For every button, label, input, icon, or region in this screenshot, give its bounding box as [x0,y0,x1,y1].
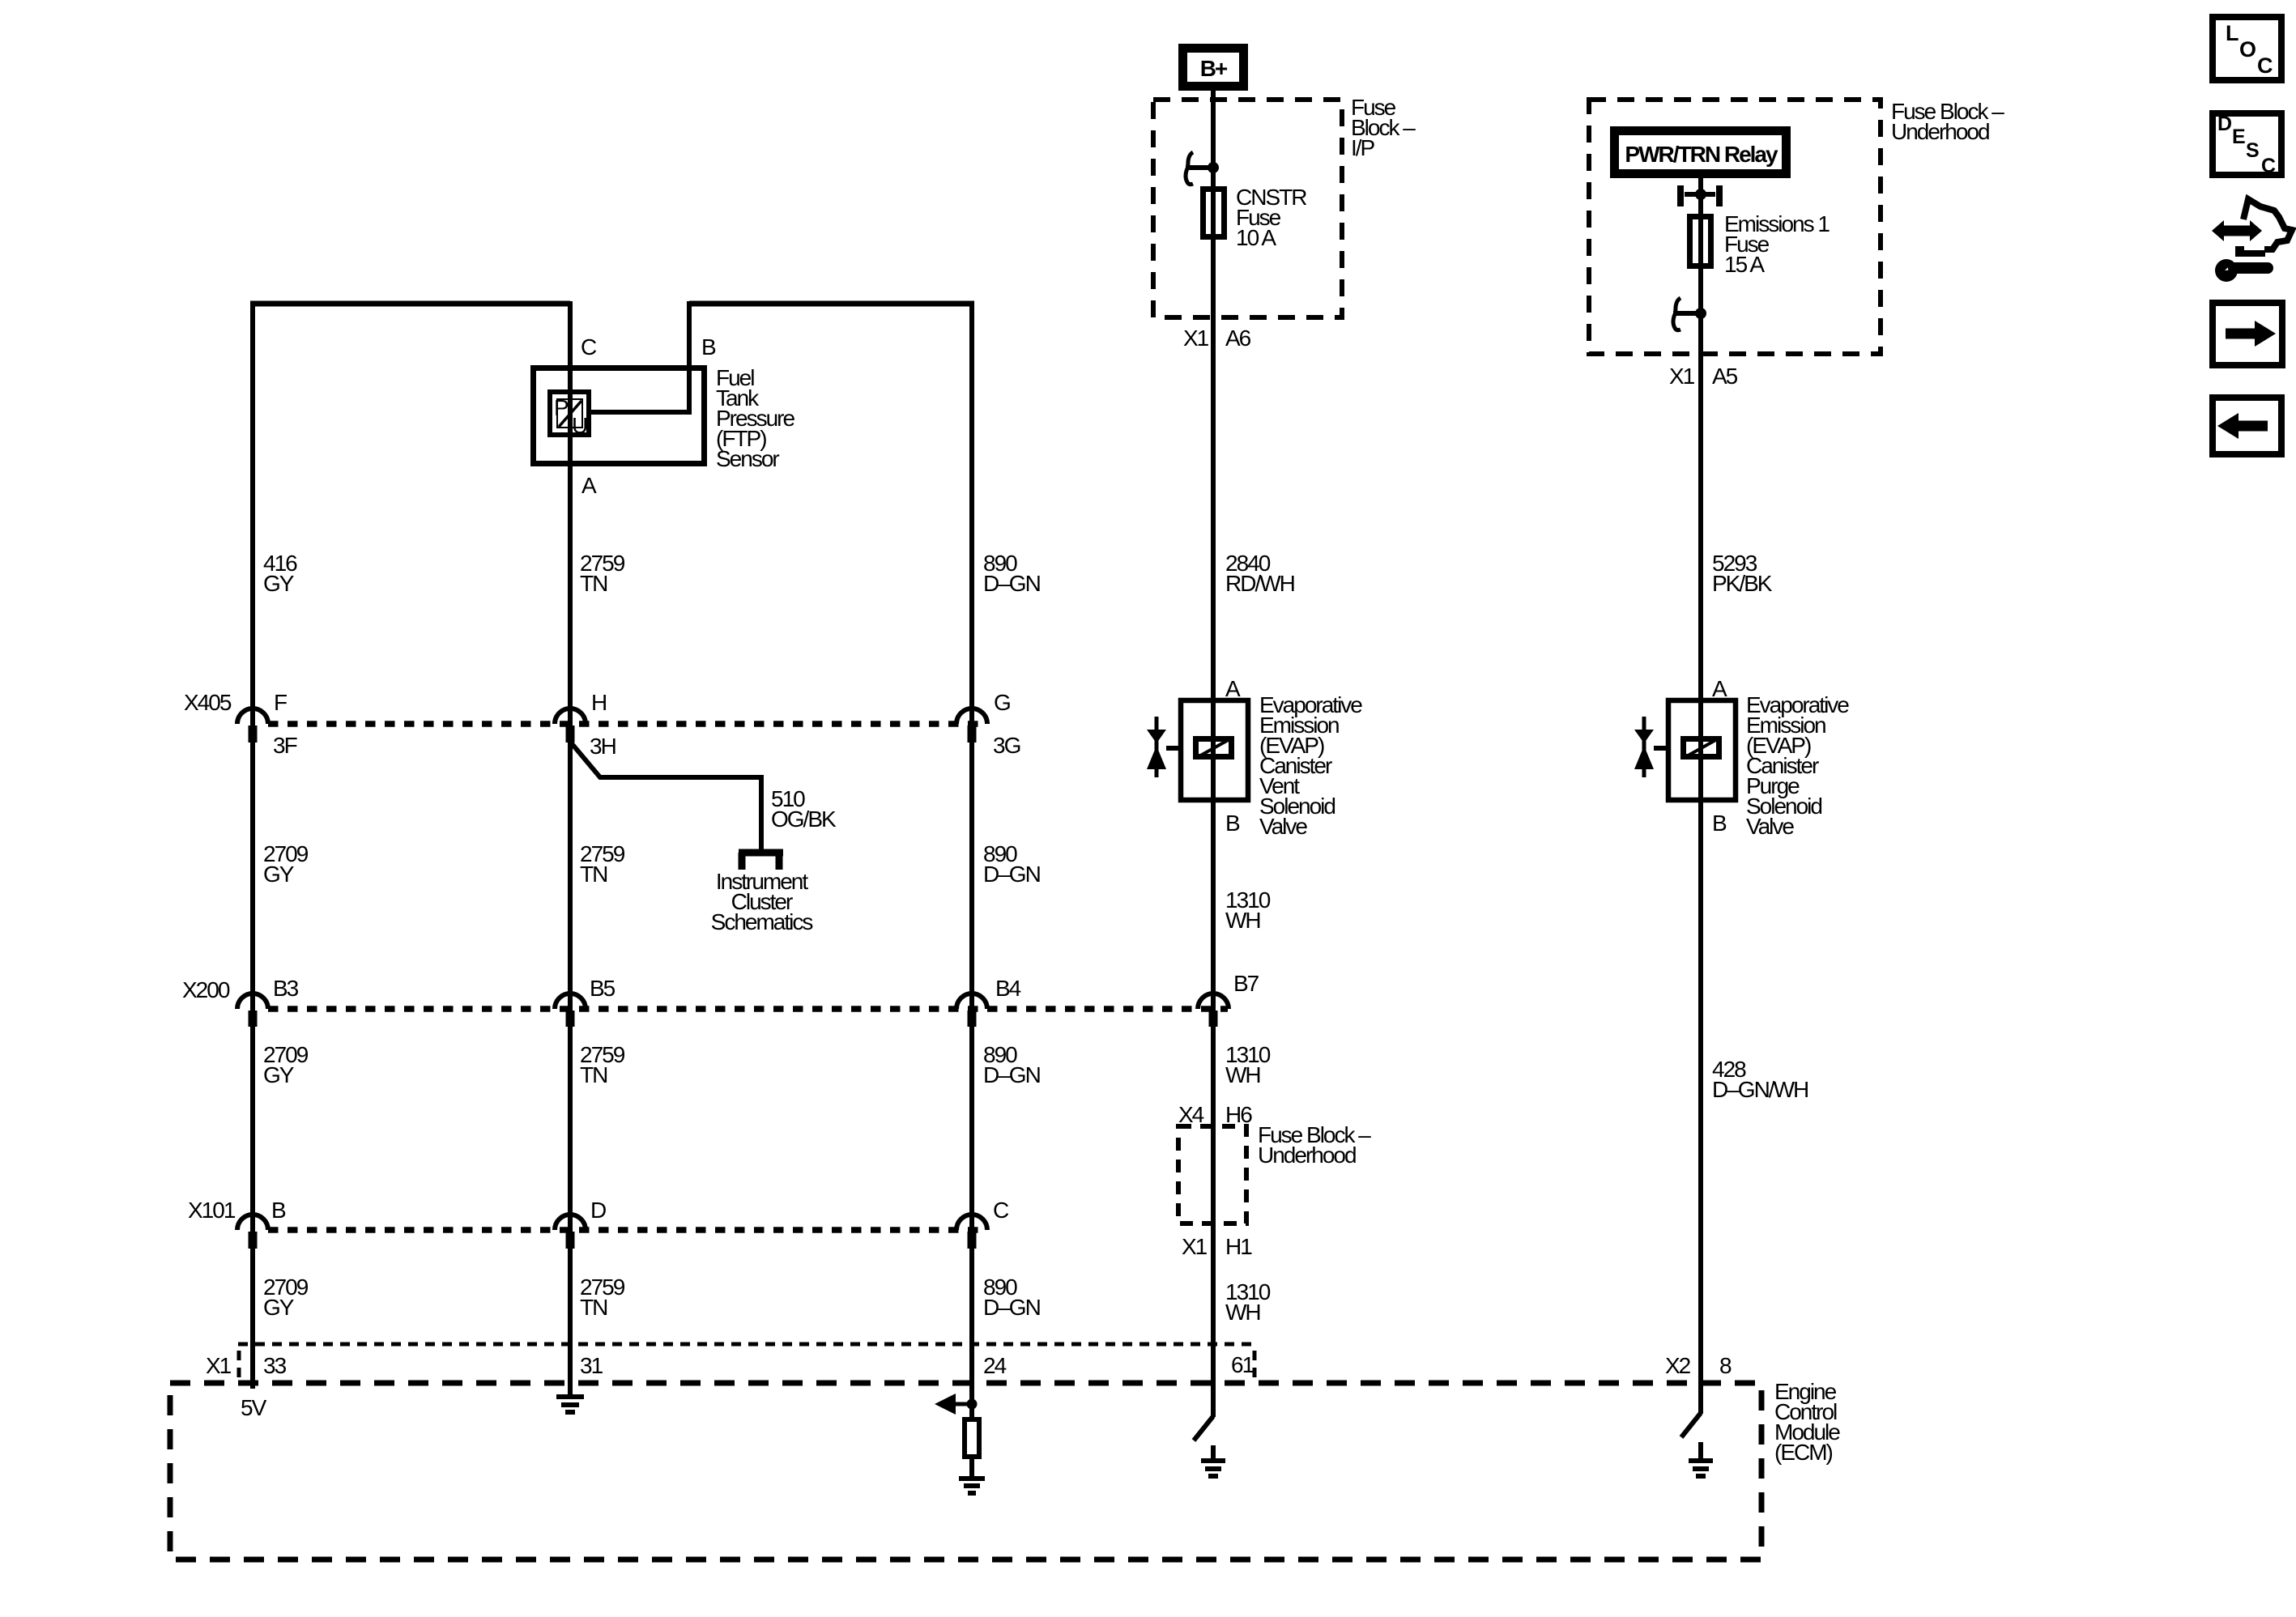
connector X101 pin B arc [237,1215,268,1230]
svg-text:D–GN: D–GN [983,1062,1040,1087]
wire top horizontal right segment (FTP pin B to 890 D-GN) [689,301,974,307]
svg-text:X4: X4 [1178,1102,1204,1127]
svg-text:D–GN/WH: D–GN/WH [1712,1077,1808,1102]
CNSTR fuse bus rivet hook [1186,152,1193,185]
connector X200 pin B7 arc [1198,994,1229,1009]
connector X101 pin C arc [956,1215,987,1230]
svg-text:3F: 3F [273,733,297,758]
ECM driver switch pin 61 [1194,1416,1213,1440]
connector X200 pin B7 terminal tick [1209,1011,1218,1027]
svg-text:D: D [2217,113,2231,135]
connector X405 dashed line [268,721,987,727]
Fuse Block Underhood small dashed box X4/H6 [1178,1126,1246,1223]
ECM driver switch pin X2-8 [1681,1413,1701,1437]
svg-text:L: L [2226,21,2238,45]
svg-text:H: H [591,690,606,715]
svg-text:GY: GY [263,1295,295,1320]
pressure transducer P/U symbol outer box [550,392,589,435]
connector X405 pin H terminal tick [566,726,575,743]
EVAP canister purge solenoid valve box [1668,700,1736,800]
off-page connector to Instrument Cluster [739,853,783,870]
pressure transducer P/U inner box [557,399,582,428]
FTP internal wire from P/U to pin B [591,410,689,415]
svg-text:D: D [590,1198,606,1223]
svg-text:H1: H1 [1225,1234,1252,1259]
svg-text:3G: 3G [993,733,1020,758]
purge valve coil [1684,739,1719,757]
purge valve check arrows [1642,717,1646,777]
connector X200 pin B4 terminal tick [968,1011,977,1027]
Fuse Block I/P dashed box [1153,100,1342,317]
connector X405 pin F arc [237,709,268,724]
connector X405 pin G terminal tick [968,726,977,743]
svg-text:A: A [1712,676,1727,701]
svg-text:H6: H6 [1225,1102,1252,1127]
svg-text:Sensor: Sensor [716,446,779,471]
connector X405 pin F terminal tick [249,726,258,743]
svg-text:TN: TN [580,571,607,596]
wire FTP pin B vertical stub [687,301,692,415]
connector X200 dashed line [268,1006,1228,1012]
svg-text:PK/BK: PK/BK [1712,571,1773,596]
svg-text:O: O [2239,37,2256,62]
ECM ground below resistor [959,1479,985,1493]
svg-text:C: C [2261,155,2276,177]
pressure transducer diagonal [559,401,581,427]
ECM ground on pin 61 [1201,1445,1225,1476]
svg-text:B: B [1225,811,1240,836]
fuse Emissions 1 15A body [1690,217,1711,266]
svg-text:A: A [581,473,597,498]
svg-text:Valve: Valve [1259,814,1307,839]
svg-text:B: B [271,1198,286,1223]
connector X101 pin D terminal tick [566,1232,575,1249]
wire W4 vertical 2840 RD/WH / 1310 WH [1211,87,1216,1417]
svg-text:GY: GY [263,571,295,596]
svg-text:E: E [2232,126,2245,148]
svg-text:GY: GY [263,862,295,887]
icon wrench [2215,259,2238,282]
FTP sensor box [534,368,705,464]
wire branch 510 OG/BK diagonal from 3H [570,742,761,849]
connector X200 pin B3 terminal tick [249,1011,258,1027]
relay output terminal posts [1680,185,1719,206]
svg-text:B3: B3 [273,976,299,1001]
connector X405 pin G arc [956,709,987,724]
EVAP canister vent solenoid valve box [1181,700,1248,800]
svg-text:TN: TN [580,1295,607,1320]
svg-text:33: 33 [263,1353,287,1378]
purge valve coil diagonal [1684,738,1719,758]
ECM connector fine dotted line X1 [238,1343,1254,1347]
Fuse Block Underhood dashed box [1589,100,1881,354]
svg-text:15 A: 15 A [1724,252,1765,277]
ECM pin 24 left arrow [956,1402,972,1406]
PWR/TRN Relay box [1615,131,1787,174]
svg-text:P: P [554,395,569,420]
ECM connector dotted right drop [1253,1351,1257,1378]
ECM connector dotted left drop [237,1351,241,1378]
ECM resistor lower stub [969,1459,974,1476]
svg-text:X1: X1 [1669,364,1695,389]
connector X101 pin D arc [555,1215,586,1230]
svg-text:C: C [581,334,597,360]
CNSTR fuse junction dot [1208,162,1219,173]
svg-text:X1: X1 [1183,326,1209,351]
svg-text:61: 61 [1231,1352,1254,1377]
svg-text:3H: 3H [590,734,616,759]
svg-text:X2: X2 [1665,1353,1691,1378]
connector X101 pin B terminal tick [249,1232,258,1249]
svg-text:X1: X1 [1182,1234,1208,1259]
svg-text:OG/BK: OG/BK [771,806,837,832]
svg-text:X405: X405 [184,690,232,715]
svg-text:S: S [2246,139,2259,162]
svg-text:WH: WH [1225,1300,1260,1325]
svg-text:D–GN: D–GN [983,862,1040,887]
svg-text:A: A [1225,676,1241,701]
wire top horizontal left segment (416 GY to FTP pin C) [250,301,570,307]
svg-text:31: 31 [580,1353,603,1378]
connector X200 pin B5 arc [555,994,586,1009]
svg-text:A5: A5 [1712,364,1738,389]
Engine Control Module dashed box [170,1383,1761,1560]
svg-text:B: B [701,334,716,360]
svg-text:Schematics: Schematics [711,909,813,934]
svg-text:8: 8 [1719,1353,1732,1378]
svg-text:TN: TN [580,862,607,887]
svg-text:PWR/TRN Relay: PWR/TRN Relay [1625,142,1778,167]
svg-text:U: U [572,413,587,438]
icon hand outline [2243,199,2292,249]
svg-text:A6: A6 [1225,326,1251,351]
wire W5 vertical 5293 PK/BK / 428 D-GN/WH [1698,177,1703,1414]
fuse CNSTR 10A body [1203,189,1225,237]
svg-text:B4: B4 [995,976,1021,1001]
ECM ground on pin X2-8 [1689,1442,1713,1476]
svg-text:5V: 5V [241,1395,267,1420]
svg-text:F: F [274,690,287,715]
ECM pin 24 junction dot [967,1399,978,1410]
icon DESC box [2213,113,2281,175]
svg-text:X200: X200 [182,977,230,1002]
Emissions fuse bus rivet hook [1673,298,1680,330]
svg-text:X101: X101 [188,1198,236,1223]
vent valve coil [1196,739,1232,757]
icon forward arrow box [2213,303,2282,365]
vent valve check arrows [1155,717,1159,777]
wire W1 vertical 416/2709 GY [250,301,255,1389]
Emissions fuse junction dot [1695,308,1706,319]
svg-text:(ECM): (ECM) [1774,1440,1833,1465]
svg-text:TN: TN [580,1062,607,1087]
svg-text:Underhood: Underhood [1258,1143,1356,1168]
relay terminal junction dot [1695,189,1706,200]
svg-text:G: G [994,690,1010,715]
svg-text:10 A: 10 A [1236,225,1276,250]
icon LOC box [2213,17,2281,80]
svg-text:RD/WH: RD/WH [1225,571,1294,596]
connector X200 pin B3 arc [237,994,268,1009]
svg-text:Valve: Valve [1746,814,1794,839]
ECM ground on pin 31 [556,1397,584,1412]
connector X101 pin C terminal tick [968,1232,977,1249]
svg-text:B5: B5 [590,976,616,1001]
connector X200 pin B5 terminal tick [566,1011,575,1027]
svg-text:B7: B7 [1233,971,1259,996]
wire W3 vertical 890 D-GN [969,301,974,1417]
svg-text:B+: B+ [1200,56,1228,81]
svg-text:WH: WH [1225,908,1260,933]
svg-text:X1: X1 [206,1353,232,1378]
connector X405 pin H arc [555,709,586,724]
vent valve coil diagonal [1196,738,1231,758]
svg-text:Underhood: Underhood [1891,119,1989,144]
svg-text:C: C [993,1198,1009,1223]
svg-text:C: C [2257,53,2273,78]
wire W2 vertical 2759 TN (FTP C/A) [568,301,573,1394]
svg-text:24: 24 [983,1353,1007,1378]
svg-text:WH: WH [1225,1062,1260,1087]
connector X101 dashed line [268,1227,987,1233]
svg-text:GY: GY [263,1062,295,1087]
icon double arrow [2221,226,2252,236]
icon back arrow box [2213,398,2281,454]
svg-text:D–GN: D–GN [983,1295,1040,1320]
B+ power feed box [1183,49,1244,87]
svg-text:D–GN: D–GN [983,571,1040,596]
svg-text:B: B [1712,811,1727,836]
ECM internal resistor on pin 24 [965,1419,979,1457]
connector X200 pin B4 arc [956,994,987,1009]
svg-text:I/P: I/P [1351,135,1375,160]
